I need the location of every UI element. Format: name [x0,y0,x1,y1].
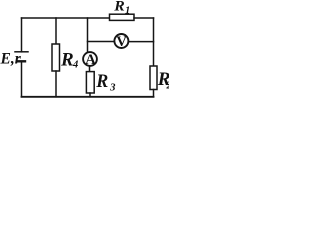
wire right lower [153,90,155,97]
svg-text:A: A [85,52,96,68]
ammeter A [83,52,97,66]
wire ammeter to R3 [89,66,91,72]
wire R4 branch lower [55,71,57,97]
wire R3 branch lower [89,93,91,97]
svg-text:2: 2 [166,81,170,92]
wire left upper [21,18,23,52]
wire left lower [21,61,23,97]
svg-text:1: 1 [125,5,130,16]
wire top-left segment [22,17,110,19]
voltmeter V [114,34,128,48]
battery E,r long plate [15,51,28,53]
wire voltmeter right [129,41,154,43]
wire ammeter branch upper [87,18,89,53]
battery E,r short plate [18,60,25,62]
svg-text:3: 3 [109,82,116,94]
resistor R4 [52,44,60,71]
svg-text:4: 4 [72,59,78,70]
resistor R1 [110,14,135,20]
svg-text:R: R [60,50,74,71]
wire right upper [153,18,155,66]
svg-text:V: V [116,34,127,50]
wire top-right segment [134,17,154,19]
resistor R2 [150,66,157,90]
resistor R3 [86,72,94,93]
wire R4 branch upper [55,18,57,44]
wire voltmeter left [88,41,115,43]
svg-text:R: R [95,71,108,92]
svg-text:R: R [113,0,125,15]
svg-text:E,r: E,r [0,51,22,68]
wire bottom [22,96,154,98]
